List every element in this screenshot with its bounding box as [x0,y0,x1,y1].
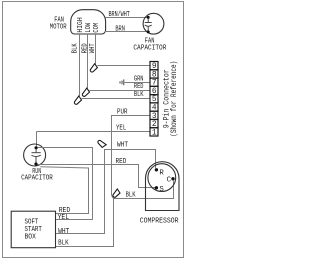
wire YEL vertical to run capacitor [36,132,38,147]
wire BLK from motor [79,34,81,96]
svg-text:YEL: YEL [116,125,126,133]
svg-text:6: 6 [152,88,157,96]
svg-text:WHT: WHT [117,142,128,150]
svg-text:5: 5 [152,96,157,104]
wire RED run capacitor to soft start box [40,167,88,214]
svg-text:9: 9 [152,63,157,71]
svg-text:9-Pin Connector: 9-Pin Connector [163,69,171,128]
svg-text:BOX: BOX [25,234,37,242]
fan motor label [50,16,67,31]
svg-text:BLK: BLK [58,240,69,248]
svg-text:GRN: GRN [134,75,144,83]
svg-text:BRN: BRN [115,25,125,33]
wire BRN motor to fan capacitor [105,31,149,33]
terminal T3 on BLK wire [74,96,81,104]
wire PUR/BLK jog at terminal [112,195,114,198]
wire BLK to compressor C and soft start box [56,181,174,247]
svg-text:(Shown for Reference): (Shown for Reference) [171,61,179,137]
wire RED to pin 6 [90,90,151,92]
svg-text:3: 3 [152,113,157,121]
wire WHT soft start box to compressor R [56,150,156,234]
svg-text:RED: RED [134,83,144,91]
svg-text:YEL: YEL [58,214,70,222]
soft start box [11,211,55,248]
compressor housing [146,162,180,211]
wire RED from motor [87,34,89,88]
svg-text:RED: RED [116,158,127,166]
fan capacitor C1 [143,13,164,34]
svg-text:BLK: BLK [134,91,144,99]
soft start box label [25,219,43,242]
wire WHT to pin 9 [97,65,150,67]
svg-text:7: 7 [152,80,157,88]
wire BLK to pin 5 [82,98,151,100]
terminal T5 on BLK wire [113,189,120,197]
svg-text:COMPRESSOR: COMPRESSOR [140,217,179,225]
svg-text:WHT: WHT [58,228,70,236]
terminal T6 on WHT wire [98,140,106,147]
9-pin connector J1 [150,62,158,137]
svg-text:4: 4 [152,105,157,113]
svg-text:WHT: WHT [89,43,97,53]
svg-text:2: 2 [152,121,157,129]
svg-text:R: R [159,169,164,177]
svg-text:C: C [167,176,172,184]
svg-text:COM: COM [93,23,101,33]
wire BRN/WHT motor to fan capacitor [106,17,149,19]
svg-text:LOW: LOW [85,22,93,32]
fan motor M1 [71,10,106,34]
svg-text:BLK: BLK [71,43,79,53]
svg-text:BRN/WHT: BRN/WHT [109,11,131,19]
compressor terminal S [155,186,158,189]
splice symbol on GRN wire [120,79,124,85]
svg-text:CAPACITOR: CAPACITOR [133,44,166,52]
run capacitor C2 [24,144,46,166]
wire PUR to pin 3 [112,116,151,196]
wire YEL run capacitor to soft start box [38,148,93,220]
wire WHT from motor [95,34,97,64]
run capacitor label [21,168,53,182]
terminal T1 on WHT wire [90,64,97,72]
terminal T2 on RED wire [82,88,89,96]
svg-text:MOTOR: MOTOR [50,24,67,32]
svg-text:8: 8 [152,71,157,79]
svg-text:1: 1 [152,129,157,137]
compressor terminal R [155,168,158,171]
wire YEL to pin 1 [37,131,151,133]
svg-text:S: S [159,186,164,194]
svg-text:CAPACITOR: CAPACITOR [21,175,53,183]
wire GRN to pin 7 [125,82,151,84]
compressor motor circle [148,164,176,192]
fan capacitor label [133,37,166,52]
svg-text:PUR: PUR [117,108,128,116]
svg-text:HIGH: HIGH [77,17,85,32]
compressor terminal C [171,177,174,180]
connector pin numbers 9-1 [152,63,157,137]
wire RED run capacitor to compressor S [38,165,155,188]
